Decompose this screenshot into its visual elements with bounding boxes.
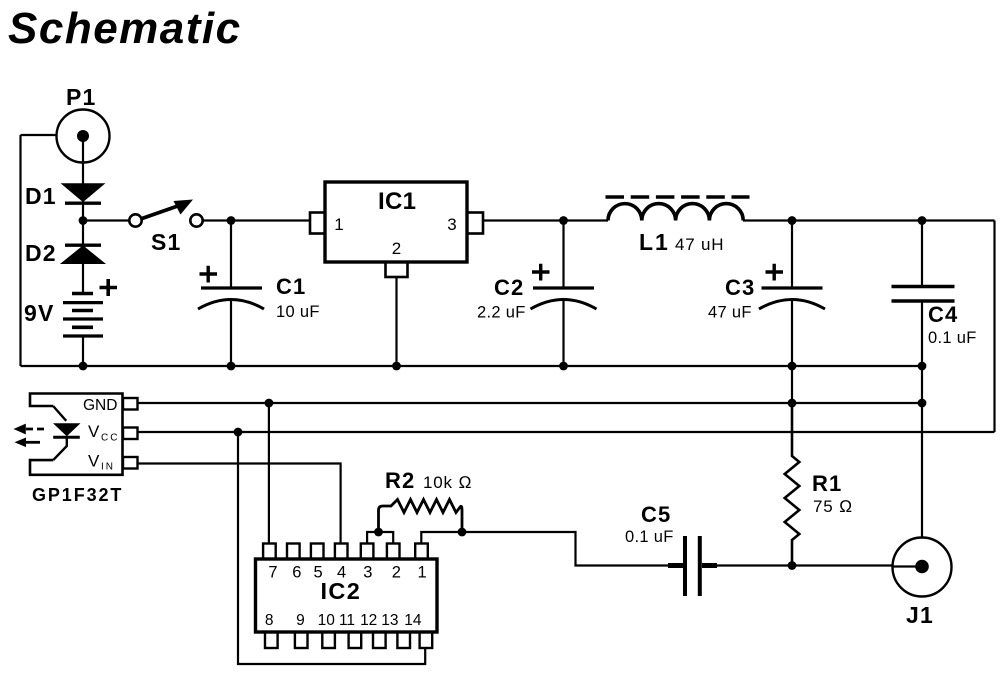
svg-text:L1: L1 [639, 229, 670, 255]
wire IC1 pin2 to rail [395, 277, 397, 366]
svg-text:9: 9 [296, 612, 305, 629]
capacitor C1 [198, 221, 320, 367]
svg-text:14: 14 [404, 612, 422, 629]
svg-text:12: 12 [360, 612, 377, 629]
wire GND net [138, 402, 923, 404]
junction C2 top [559, 216, 568, 225]
junction R1 bottom [788, 561, 797, 570]
inductor L1 [606, 197, 750, 255]
svg-text:2: 2 [392, 239, 401, 258]
capacitor C5 [625, 502, 717, 596]
wire IC2 pin3-pin2 bridge [367, 532, 393, 544]
svg-text:3: 3 [363, 564, 372, 582]
junction C4 bottom [918, 362, 927, 371]
capacitor C3 [708, 221, 825, 367]
wire D1 to D2 [82, 203, 84, 244]
svg-text:C4: C4 [928, 302, 958, 327]
wire rail to GND line at R1 branch [791, 366, 793, 403]
svg-text:47 uF: 47 uF [708, 304, 752, 322]
junction GND / R1 branch [788, 399, 797, 408]
wire node to S1 [83, 219, 129, 221]
junction pin2/rail [392, 362, 401, 371]
switch S1 [129, 200, 202, 256]
IC2 [256, 544, 438, 649]
svg-text:6: 6 [292, 564, 301, 582]
svg-text:Schematic: Schematic [8, 4, 242, 53]
wire Vcc net [138, 431, 995, 433]
junction C3 bottom [788, 362, 797, 371]
svg-text:R1: R1 [812, 471, 842, 496]
op-amp IC1 [310, 182, 483, 277]
junction Vcc to IC2 pin14 [234, 428, 243, 437]
diode D2 [25, 240, 103, 266]
svg-text:C5: C5 [641, 502, 671, 527]
wire IC2 pin1 to C5 [421, 532, 683, 566]
svg-text:9V: 9V [24, 300, 55, 326]
wire D2 to battery [82, 262, 84, 294]
svg-text:3: 3 [447, 215, 456, 234]
C1 plus sign [200, 266, 218, 283]
svg-text:GP1F32T: GP1F32T [32, 485, 123, 505]
svg-text:0.1 uF: 0.1 uF [625, 528, 674, 546]
svg-text:47 uH: 47 uH [675, 235, 724, 254]
svg-text:1: 1 [334, 215, 343, 234]
junction R2 left lead [374, 528, 383, 537]
junction node D1/D2/S1 [79, 216, 88, 225]
C3 plus sign [766, 264, 784, 281]
wire P1 center to D1 [82, 141, 84, 185]
wire Vin net [138, 464, 341, 544]
svg-text:0.1 uF: 0.1 uF [928, 329, 977, 347]
svg-text:C2: C2 [494, 275, 524, 300]
ground rail [21, 365, 923, 367]
svg-text:IN: IN [101, 462, 115, 473]
wire right edge vertical [993, 221, 995, 433]
diode D1 [25, 183, 102, 209]
wire Vcc line to IC2 pin 14 [238, 432, 425, 664]
svg-text:IC1: IC1 [378, 188, 416, 215]
junction GND to IC2 pin7 [265, 399, 274, 408]
svg-text:V: V [88, 452, 100, 471]
wire P1 to left edge [21, 134, 58, 136]
svg-text:13: 13 [381, 612, 398, 629]
svg-text:IC2: IC2 [321, 578, 362, 604]
wire C5 to J1 [702, 564, 893, 566]
svg-text:2: 2 [392, 564, 401, 582]
svg-text:D2: D2 [25, 240, 57, 266]
wire IC1 pin3 to L1 [483, 219, 608, 221]
C2 plus sign [532, 264, 550, 281]
junction C2 bottom [559, 362, 568, 371]
battery 9V [24, 279, 117, 336]
svg-text:GND: GND [83, 397, 117, 414]
connector J1 [893, 538, 952, 629]
junction R2 right lead [458, 528, 467, 537]
svg-text:J1: J1 [906, 602, 934, 628]
svg-text:1: 1 [418, 564, 427, 582]
wire battery to ground rail [82, 336, 84, 366]
svg-text:2.2 uF: 2.2 uF [477, 304, 526, 322]
capacitor C4 [892, 221, 977, 367]
svg-text:10k Ω: 10k Ω [423, 473, 472, 492]
svg-text:10 uF: 10 uF [276, 303, 320, 321]
junction C1 top [227, 216, 236, 225]
svg-text:10: 10 [318, 612, 336, 629]
svg-text:7: 7 [268, 564, 277, 582]
svg-text:75 Ω: 75 Ω [813, 497, 853, 516]
junction battery/rail [79, 362, 88, 371]
svg-text:D1: D1 [25, 183, 57, 209]
junction GND line / J1 vertical [918, 399, 927, 408]
wire GND line to IC2 pin 7 [268, 403, 270, 544]
svg-text:R2: R2 [385, 468, 415, 493]
svg-text:C3: C3 [725, 275, 755, 300]
connector P1 [57, 84, 110, 163]
photo detector GP1F32T [14, 394, 138, 506]
junction C1 bottom [227, 362, 236, 371]
svg-text:C1: C1 [276, 274, 306, 299]
wire left edge vertical [19, 135, 21, 366]
junction C3 top [788, 216, 797, 225]
junction C4 top [918, 216, 927, 225]
resistor R1 [785, 403, 853, 566]
svg-text:V: V [88, 422, 100, 441]
svg-text:8: 8 [265, 612, 274, 629]
wire C4 junction down to J1 shell [921, 366, 923, 539]
wire S1 to IC1 pin1 [203, 219, 310, 221]
battery plus sign [100, 279, 118, 296]
svg-text:P1: P1 [66, 84, 97, 110]
svg-text:11: 11 [339, 612, 355, 629]
wire L1 to right edge [743, 219, 995, 221]
svg-text:CC: CC [101, 433, 119, 444]
svg-text:S1: S1 [151, 229, 182, 255]
capacitor C2 [477, 221, 597, 367]
resistor R2 [379, 468, 473, 532]
